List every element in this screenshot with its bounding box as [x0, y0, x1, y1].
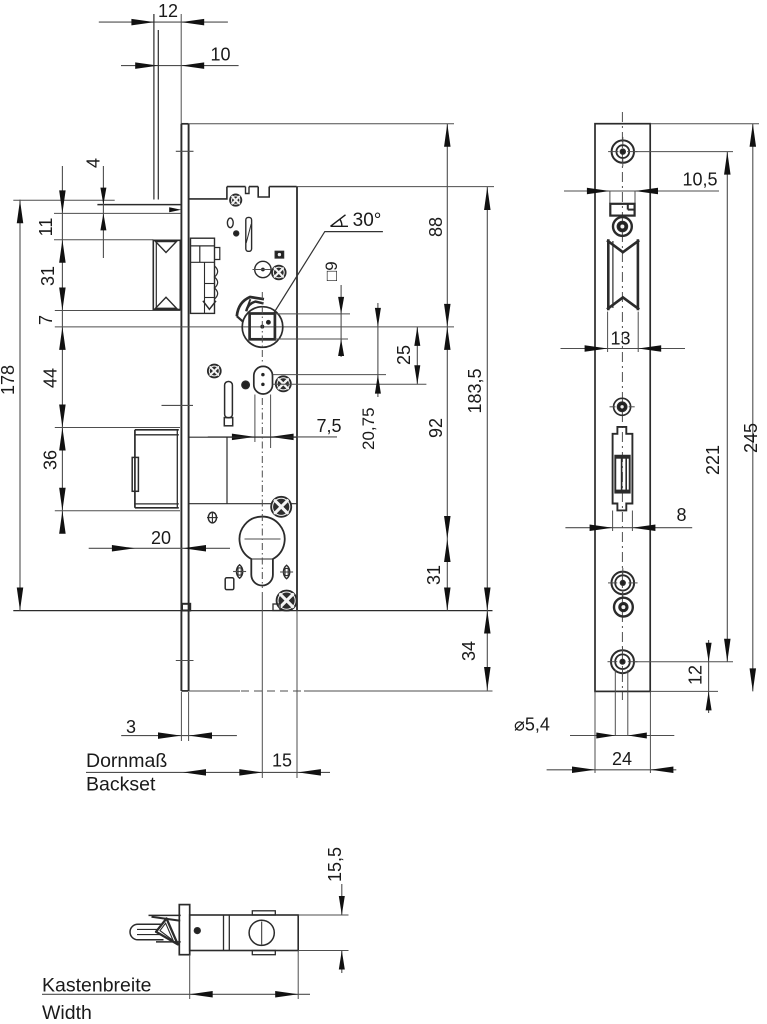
small oval detail — [227, 218, 233, 228]
extension from top screw centre to dim 221 — [635, 151, 733, 153]
latch tail mechanism behind faceplate — [191, 238, 220, 313]
dimension 24 (plate width) — [547, 691, 677, 773]
svg-text:30°: 30° — [353, 210, 382, 231]
deadbolt tail guides inside case — [189, 437, 297, 504]
backset dimension line with labels Dornmass/Backset and dim 15 — [86, 750, 330, 796]
extension line at faceplate top (to dim 88) — [189, 123, 454, 125]
extension line 20,75 anchor (upper hole) — [273, 374, 386, 376]
right view: bottom fixing screw — [611, 650, 634, 673]
dimension 20 (bolt throw) — [89, 528, 230, 552]
right view: middle screw — [610, 398, 635, 415]
small dot left of oval — [242, 381, 250, 389]
top-left case screw (X) — [230, 194, 242, 206]
extension line y=239.8 (11 bottom) — [54, 239, 153, 241]
small ellipse near faceplate (y=516) — [208, 512, 216, 523]
bottom view: follower boss circle — [249, 911, 275, 955]
svg-text:12: 12 — [158, 1, 178, 21]
dimension 178 (left) — [0, 200, 23, 611]
internal mechanism line at y=204.6 — [97, 204, 181, 206]
deadbolt (thrown, side view) — [55, 428, 180, 511]
lock case right edge — [296, 187, 298, 611]
slot side extensions down to dim 8 — [613, 511, 633, 532]
svg-text:15,5: 15,5 — [325, 847, 345, 882]
follower square 9mm hole — [250, 314, 275, 340]
X-screw right of oval — [276, 376, 291, 391]
follower centreline (vertical dash-dot) — [261, 292, 263, 363]
top plate-screw centre tick on faceplate — [176, 150, 194, 152]
svg-text:183,5: 183,5 — [465, 368, 485, 413]
screw below aux latch — [613, 217, 632, 236]
cylinder-screw oval (vertical slot) — [254, 366, 273, 394]
svg-text:245: 245 — [741, 423, 761, 453]
dimension 13 — [561, 329, 686, 352]
svg-text:3: 3 — [126, 717, 136, 737]
left dimension chain 11/31/7/44/36 — [59, 166, 66, 534]
extension line of faceplate front face (up to dim 12/10) — [180, 14, 182, 124]
X-screw lower-right of cylinder — [276, 590, 296, 610]
extension: case edge down to dim 15 — [296, 611, 298, 779]
oval side extension lines down to dim 7,5 — [255, 395, 271, 449]
dimension chain 88/92/31 (x=447) — [444, 124, 451, 611]
svg-text:36: 36 — [41, 450, 61, 470]
faceplate (side view) — [181, 124, 188, 691]
dimension 10,5 — [564, 170, 719, 205]
dimension chain 183,5 / 34 (x=487) — [484, 187, 491, 691]
svg-text:10,5: 10,5 — [682, 170, 717, 190]
dimension 8 — [565, 505, 692, 531]
dimension 10 (top) — [121, 45, 239, 69]
X-screw near plate above slot — [208, 364, 221, 377]
X-screw beside guide circle — [272, 266, 286, 280]
nut centre line y=326.9 (dim 7 bottom / 88 bottom) — [55, 326, 454, 328]
svg-text:25: 25 — [394, 345, 414, 365]
svg-text:7: 7 — [36, 315, 56, 325]
case bottom edge + extension to chains — [13, 610, 492, 612]
vertical slot lower-left of case — [224, 382, 232, 426]
square-9 dimension — [275, 261, 350, 357]
svg-text:12: 12 — [686, 665, 706, 685]
latch bolt head (side view) — [153, 240, 180, 309]
vertical slot with diagonal — [246, 217, 252, 251]
right view: vertical centreline — [621, 112, 623, 700]
right view: screw pair lower (filled) — [614, 598, 633, 617]
svg-text:20,75: 20,75 — [359, 407, 378, 450]
auxiliary latch piece — [610, 204, 634, 216]
small dot detail — [234, 231, 239, 236]
svg-text:13: 13 — [610, 329, 630, 349]
svg-text:□9: □9 — [322, 261, 341, 281]
latch bolt in plate opening (front view) — [607, 239, 639, 310]
dimension 7,5 — [208, 416, 342, 440]
extension line from case top to dim 183,5 — [297, 186, 494, 188]
bottom view: internal divider lines — [224, 915, 230, 951]
svg-text:Dornmaß: Dornmaß — [86, 750, 167, 772]
dimension 12 (screw to plate end) — [686, 640, 712, 713]
bottom view: dot detail — [194, 928, 200, 934]
svg-text:88: 88 — [426, 217, 446, 237]
svg-text:⌀5,4: ⌀5,4 — [514, 715, 550, 735]
X-screw upper-right of cylinder — [271, 497, 291, 517]
latch side extension lines down to dim 13 — [608, 312, 639, 352]
dimension 12 (stile depth, top) — [99, 1, 228, 25]
svg-text:92: 92 — [426, 418, 446, 438]
middle plate-screw centre tick on faceplate — [162, 404, 194, 406]
right view: screw pair upper — [612, 572, 635, 595]
svg-text:15: 15 — [272, 751, 292, 771]
plus-screws beside cylinder — [236, 565, 242, 579]
bottom plate-screw centre tick on faceplate — [176, 660, 194, 662]
follower (nut) circle — [242, 307, 283, 348]
svg-text:11: 11 — [36, 218, 56, 237]
svg-text:Kastenbreite: Kastenbreite — [42, 975, 152, 997]
svg-text:31: 31 — [424, 565, 444, 585]
right view: faceplate outline — [595, 124, 650, 692]
small square near cylinder — [225, 578, 234, 590]
bottom view: latch nose — [130, 915, 181, 944]
dimension 3 (faceplate thickness) — [121, 692, 237, 741]
extension line y=310.5 (latch bottom, dim 7 top) — [55, 310, 181, 312]
svg-text:7,5: 7,5 — [316, 416, 341, 436]
dimension Kastenbreite/Width — [42, 951, 310, 1024]
faceplate bottom extension line (partly dashed) — [189, 690, 493, 692]
angle leader 30deg — [274, 232, 383, 314]
dimension 15,5 — [298, 847, 348, 973]
angle symbol — [331, 215, 349, 227]
svg-text:Backset: Backset — [86, 774, 156, 796]
svg-text:34: 34 — [459, 641, 479, 661]
deadbolt slot (front view) — [613, 427, 633, 511]
svg-text:221: 221 — [703, 445, 723, 475]
dimension 245 — [650, 124, 761, 692]
svg-text:10: 10 — [210, 45, 230, 65]
dimension 4 (left chain) — [84, 158, 107, 258]
svg-text:8: 8 — [676, 505, 686, 525]
dimension 20,75 — [359, 303, 381, 450]
dimension 221 — [703, 152, 731, 662]
svg-text:20: 20 — [151, 528, 171, 548]
extension line y=200.2 (dim 178 top anchor) — [13, 199, 114, 201]
lock case top edge with notches — [189, 187, 297, 199]
extension from bottom screw centre to dims 12/221 — [635, 661, 734, 663]
extension line y=213.4 (dim 4 / 11) — [54, 212, 181, 214]
svg-text:Width: Width — [42, 1002, 92, 1024]
svg-text:178: 178 — [0, 365, 18, 395]
cylinder centreline (dash-dot) — [261, 398, 263, 588]
svg-text:44: 44 — [41, 368, 61, 388]
follower cam tab — [237, 297, 264, 316]
guide circle with centre dot — [253, 261, 274, 277]
small arrow to faceplate at y=209.7 — [169, 207, 181, 212]
svg-text:24: 24 — [612, 749, 632, 769]
bottom view: faceplate cross-section — [179, 905, 189, 955]
svg-text:31: 31 — [38, 266, 58, 286]
euro profile cylinder hole — [240, 517, 285, 586]
right view: top fixing screw — [612, 140, 634, 162]
extension at plate bottom (right) — [650, 690, 718, 692]
dimension 25 — [394, 327, 420, 384]
bottom view: case outline — [190, 915, 299, 951]
svg-text:4: 4 — [84, 158, 104, 168]
diameter 5,4 label and dimension — [514, 670, 674, 739]
small square stop (filled) — [275, 251, 283, 258]
extension line 25 anchor (lower hole) — [273, 383, 427, 385]
extension: cylinder centre down to backset dim — [261, 592, 263, 778]
stile profile lines (top-left) — [154, 14, 158, 200]
